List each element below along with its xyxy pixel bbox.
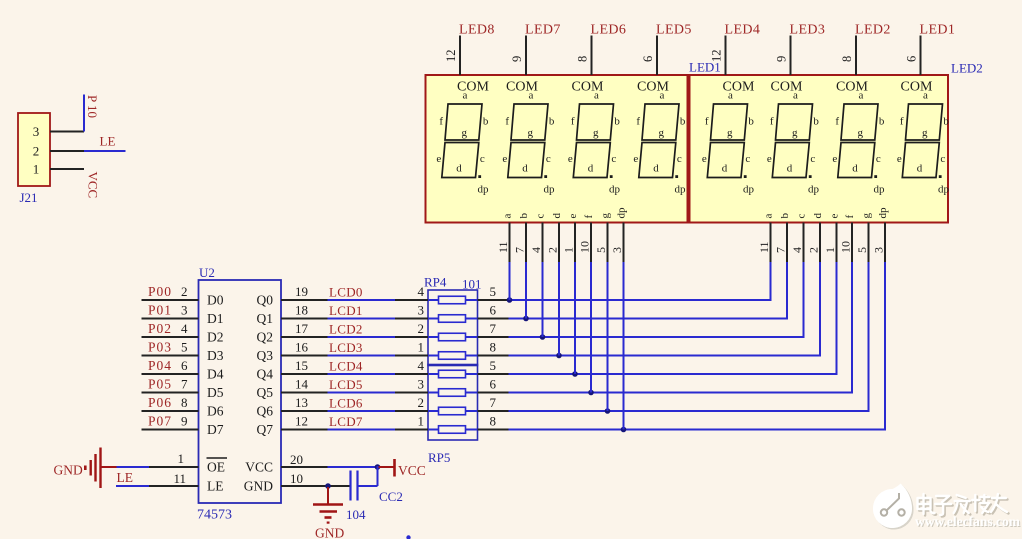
svg-text:11: 11 [173, 471, 186, 486]
watermark text [915, 494, 1022, 530]
segment pin e/1 (left display) [562, 214, 580, 254]
svg-text:P04: P04 [148, 358, 172, 373]
COM pin 8 (display LED2) [840, 36, 856, 76]
svg-text:4: 4 [418, 284, 425, 299]
wire bus row f [478, 392, 509, 394]
svg-text:5: 5 [490, 358, 497, 373]
segment pin c/4 (left display) [529, 214, 547, 254]
wire U2 Q3 to RP input [281, 355, 328, 357]
svg-text:RP4: RP4 [424, 275, 447, 290]
svg-text:12: 12 [444, 50, 458, 63]
junction node row d [556, 353, 562, 359]
segment pin dp/3 (left display) [610, 207, 628, 253]
COM pin 12 (display LED8) [444, 36, 460, 76]
7-seg digit under LED4 [702, 80, 755, 196]
svg-text:74573: 74573 [197, 508, 232, 523]
wire bus row e [478, 373, 509, 375]
svg-text:COM: COM [572, 80, 604, 95]
wire P04 to U2 pin 6 [142, 373, 199, 375]
svg-text:6: 6 [490, 377, 497, 392]
svg-text:LCD3: LCD3 [329, 340, 363, 355]
svg-text:c: c [796, 214, 808, 219]
wire P01 to U2 pin 3 [142, 318, 199, 320]
svg-text:d: d [551, 213, 563, 219]
svg-text:5: 5 [855, 247, 869, 253]
svg-text:12: 12 [710, 50, 724, 63]
7-seg digit under LED5 [633, 80, 686, 196]
svg-text:GND: GND [54, 463, 83, 478]
svg-text:4: 4 [790, 247, 804, 253]
svg-text:8: 8 [840, 56, 854, 62]
wire bus row a [478, 299, 509, 301]
wire segment a left display [509, 223, 511, 301]
svg-text:2: 2 [418, 395, 425, 410]
svg-text:Q6: Q6 [257, 404, 274, 419]
svg-text:GND: GND [244, 479, 273, 494]
segment pin d/2 (right display) [807, 213, 825, 254]
svg-text:2: 2 [33, 144, 40, 159]
svg-text:VCC: VCC [245, 460, 273, 475]
svg-text:D6: D6 [207, 404, 224, 419]
svg-text:16: 16 [295, 340, 309, 355]
wire U2 Q2 to RP input [281, 336, 328, 338]
svg-text:J21: J21 [20, 190, 38, 205]
svg-text:10: 10 [839, 241, 853, 253]
wire U2 Q6 to RP input [281, 410, 328, 412]
svg-text:COM: COM [637, 80, 669, 95]
svg-text:5: 5 [594, 247, 608, 253]
svg-text:12: 12 [295, 414, 308, 429]
svg-text:LED2: LED2 [951, 61, 983, 76]
wire P06 to U2 pin 8 [142, 410, 199, 412]
svg-text:COM: COM [836, 80, 868, 95]
resistor element 3 of RP4 [428, 333, 478, 341]
svg-text:6: 6 [641, 56, 655, 62]
svg-text:D4: D4 [207, 367, 224, 382]
svg-text:b: b [518, 213, 530, 219]
wire bus row b [478, 318, 509, 320]
wire segment c left display [542, 223, 544, 338]
svg-text:18: 18 [295, 303, 308, 318]
segment pin g/5 (right display) [855, 213, 873, 254]
wire segment b right display [786, 223, 788, 320]
svg-text:c: c [535, 214, 547, 219]
segment pin f/10 (right display) [839, 215, 857, 254]
svg-text:VCC: VCC [86, 172, 101, 199]
svg-text:www.elecfans.com: www.elecfans.com [915, 514, 1021, 529]
connector J21 [18, 113, 50, 205]
svg-text:7: 7 [513, 247, 527, 253]
svg-text:VCC: VCC [398, 463, 426, 478]
display module LED1 (left 4-digit 7-segment block) [426, 75, 688, 223]
IC U2 74573 latch [197, 265, 281, 523]
svg-text:P06: P06 [148, 395, 172, 410]
svg-text:1: 1 [562, 247, 576, 253]
svg-text:4: 4 [181, 321, 188, 336]
svg-text:dp: dp [877, 207, 889, 219]
svg-text:1: 1 [418, 414, 425, 429]
svg-text:Q4: Q4 [257, 367, 274, 382]
resistor element 2 of RP4 [428, 315, 478, 323]
svg-text:15: 15 [295, 358, 308, 373]
wire bus row d [478, 355, 509, 357]
svg-text:7: 7 [181, 377, 188, 392]
svg-text:LED7: LED7 [525, 23, 561, 38]
svg-text:U2: U2 [199, 265, 215, 280]
junction node VCC [375, 464, 381, 470]
7-seg digit under LED3 [767, 80, 820, 196]
svg-text:8: 8 [490, 340, 497, 355]
svg-text:1: 1 [823, 247, 837, 253]
svg-text:LED2: LED2 [855, 23, 891, 38]
resistor element 4 of RP4 [428, 352, 478, 360]
svg-text:17: 17 [295, 321, 309, 336]
svg-text:1: 1 [33, 162, 40, 177]
svg-text:19: 19 [295, 284, 308, 299]
svg-text:1: 1 [178, 451, 185, 466]
svg-text:10: 10 [290, 471, 303, 486]
wire bus row c [478, 336, 509, 338]
svg-text:LED4: LED4 [725, 23, 761, 38]
svg-text:4: 4 [418, 358, 425, 373]
svg-text:GND: GND [315, 526, 344, 539]
wire J21 pin 2 [50, 150, 84, 152]
wire bus row g [478, 410, 509, 412]
wire segment f left display [590, 223, 592, 393]
svg-text:9: 9 [181, 414, 188, 429]
svg-text:LCD1: LCD1 [329, 303, 363, 318]
resistor element 3 of RP5 [428, 407, 478, 415]
wire LE (U2 pin 11) [116, 485, 199, 487]
svg-text:LED3: LED3 [790, 23, 826, 38]
svg-text:COM: COM [457, 80, 489, 95]
wire P03 to U2 pin 5 [142, 355, 199, 357]
svg-text:8: 8 [576, 56, 590, 62]
svg-text:Q0: Q0 [257, 293, 274, 308]
svg-text:6: 6 [490, 303, 497, 318]
segment pin b/7 (right display) [774, 213, 792, 254]
svg-text:P05: P05 [148, 377, 172, 392]
wire J21 pin 1 [50, 168, 84, 170]
svg-text:a: a [502, 214, 514, 219]
watermark elecfans logo [873, 484, 914, 530]
svg-text:D1: D1 [207, 311, 224, 326]
svg-text:P00: P00 [148, 284, 172, 299]
svg-text:6: 6 [905, 56, 919, 62]
wire LE [84, 150, 126, 152]
svg-text:LED1: LED1 [920, 23, 956, 38]
svg-text:LCD6: LCD6 [329, 396, 363, 411]
junction node GND [325, 483, 331, 489]
ground symbol (bottom, earth) [313, 487, 344, 539]
svg-text:3: 3 [33, 124, 40, 139]
svg-text:P01: P01 [148, 303, 172, 318]
junction node row b [523, 316, 529, 322]
svg-text:Q2: Q2 [257, 330, 274, 345]
svg-text:9: 9 [510, 56, 524, 62]
svg-text:D2: D2 [207, 330, 224, 345]
segment pin a/11 (left display) [496, 214, 514, 254]
7-seg digit under LED1 [897, 80, 950, 196]
svg-text:Q5: Q5 [257, 385, 274, 400]
svg-text:P02: P02 [148, 321, 172, 336]
wire capacitor to VCC node [358, 466, 378, 486]
svg-text:11: 11 [757, 241, 771, 253]
junction node row f [588, 390, 594, 396]
wire segment g right display [868, 223, 870, 413]
svg-text:D7: D7 [207, 422, 224, 437]
svg-text:d: d [812, 213, 824, 219]
svg-text:2: 2 [418, 321, 425, 336]
COM pin 9 (display LED3) [775, 36, 791, 76]
svg-text:13: 13 [295, 395, 308, 410]
wire VCC (U2 pin 20) [281, 466, 378, 468]
wire U2 Q0 to RP input [281, 299, 328, 301]
resistor network RP4 [424, 275, 482, 366]
stray blue mark [406, 535, 410, 539]
svg-text:CC2: CC2 [379, 489, 403, 504]
svg-text:5: 5 [490, 284, 497, 299]
svg-text:8: 8 [181, 395, 188, 410]
wire bus row dp [478, 429, 509, 431]
segment pin d/2 (left display) [546, 213, 564, 254]
svg-text:COM: COM [771, 80, 803, 95]
svg-text:LE: LE [100, 134, 116, 149]
svg-text:8: 8 [490, 414, 497, 429]
display module LED2 (right 4-digit 7-segment block) [690, 75, 949, 223]
svg-text:D3: D3 [207, 348, 224, 363]
wire segment b left display [525, 223, 527, 319]
wire segment d left display [558, 223, 560, 356]
svg-text:OE: OE [207, 460, 225, 475]
svg-text:2: 2 [807, 247, 821, 253]
wire P07 to U2 pin 9 [142, 429, 199, 431]
wire segment dp left display [623, 223, 625, 430]
svg-text:3: 3 [610, 247, 624, 253]
7-seg digit under LED2 [832, 80, 885, 196]
segment pin g/5 (left display) [594, 213, 612, 254]
svg-text:LED8: LED8 [459, 23, 495, 38]
svg-text:COM: COM [723, 80, 755, 95]
svg-text:7: 7 [490, 395, 497, 410]
wire OE (U2 pin 1) [101, 466, 199, 468]
svg-text:RP5: RP5 [428, 450, 450, 465]
svg-text:D5: D5 [207, 385, 224, 400]
resistor element 2 of RP5 [428, 389, 478, 397]
segment pin f/10 (left display) [578, 215, 596, 254]
segment pin b/7 (left display) [513, 213, 531, 254]
svg-text:f: f [844, 215, 856, 219]
svg-text:COM: COM [901, 80, 933, 95]
junction node row a [507, 297, 513, 303]
junction node row g [605, 408, 611, 414]
svg-text:7: 7 [774, 247, 788, 253]
svg-text:LED6: LED6 [591, 23, 627, 38]
resistor network RP5 [428, 365, 478, 466]
COM pin 6 (display LED1) [905, 36, 921, 76]
svg-text:14: 14 [295, 377, 309, 392]
ground symbol (left, power ground sideways) [54, 448, 101, 489]
svg-text:LED5: LED5 [656, 23, 692, 38]
svg-text:104: 104 [346, 507, 366, 522]
svg-text:g: g [600, 213, 612, 219]
wire segment d right display [819, 223, 821, 357]
svg-text:a: a [763, 214, 775, 219]
capacitor CC2 [346, 471, 403, 523]
svg-text:b: b [779, 213, 791, 219]
svg-text:COM: COM [506, 80, 538, 95]
svg-text:2: 2 [546, 247, 560, 253]
wire U2 Q5 to RP input [281, 392, 328, 394]
svg-text:11: 11 [496, 241, 510, 253]
svg-text:1: 1 [418, 340, 425, 355]
svg-text:4: 4 [529, 247, 543, 253]
wire segment c right display [803, 223, 805, 339]
svg-text:9: 9 [775, 56, 789, 62]
svg-text:2: 2 [181, 284, 188, 299]
svg-text:3: 3 [872, 247, 886, 253]
svg-text:P 10: P 10 [85, 95, 100, 118]
svg-text:P03: P03 [148, 340, 172, 355]
wire J21 pin 3 [50, 131, 84, 133]
7-seg digit under LED8 [436, 80, 489, 196]
svg-text:g: g [861, 213, 873, 219]
segment pin c/4 (right display) [790, 214, 808, 254]
wire P05 to U2 pin 7 [142, 392, 199, 394]
svg-text:101: 101 [462, 277, 482, 292]
resistor element 1 of RP4 [428, 296, 478, 304]
wire segment a right display [770, 223, 772, 302]
svg-text:e: e [567, 214, 579, 219]
wire segment dp right display [884, 223, 886, 431]
wire segment e right display [836, 223, 838, 376]
svg-text:3: 3 [418, 377, 425, 392]
7-seg digit under LED7 [502, 80, 555, 196]
svg-text:e: e [829, 214, 841, 219]
svg-text:LCD7: LCD7 [329, 414, 363, 429]
wire U2 Q7 to RP input [281, 429, 328, 431]
COM pin 12 (display LED4) [710, 36, 726, 76]
junction node row dp [621, 427, 627, 433]
svg-text:dp: dp [616, 207, 628, 219]
wire segment f right display [851, 223, 853, 394]
svg-text:5: 5 [181, 340, 188, 355]
VCC power symbol [378, 459, 426, 478]
svg-text:LCD0: LCD0 [329, 285, 363, 300]
svg-text:D0: D0 [207, 293, 224, 308]
svg-text:LCD5: LCD5 [329, 377, 363, 392]
svg-text:7: 7 [490, 321, 497, 336]
segment pin a/11 (right display) [757, 214, 775, 254]
svg-text:LCD2: LCD2 [329, 322, 363, 337]
7-seg digit under LED6 [568, 80, 621, 196]
svg-text:P07: P07 [148, 414, 172, 429]
svg-text:LCD4: LCD4 [329, 359, 363, 374]
wire P00 to U2 pin 2 [142, 299, 199, 301]
svg-text:LE: LE [207, 479, 224, 494]
wire segment e left display [574, 223, 576, 375]
wire segment g left display [607, 223, 609, 412]
COM pin 9 (display LED7) [510, 36, 526, 76]
svg-text:Q1: Q1 [257, 311, 274, 326]
COM pin 8 (display LED6) [576, 36, 592, 76]
svg-text:Q7: Q7 [257, 422, 274, 437]
junction node row c [540, 334, 546, 340]
wire U2 Q4 to RP input [281, 373, 328, 375]
svg-text:3: 3 [418, 303, 425, 318]
junction node row e [572, 371, 578, 377]
resistor element 4 of RP5 [428, 426, 478, 434]
svg-text:3: 3 [181, 303, 188, 318]
segment pin dp/3 (right display) [872, 207, 890, 253]
resistor element 1 of RP5 [428, 370, 478, 378]
segment pin e/1 (right display) [823, 214, 841, 254]
svg-text:20: 20 [290, 452, 303, 467]
svg-text:10: 10 [578, 241, 592, 253]
COM pin 6 (display LED5) [641, 36, 657, 76]
wire U2 Q1 to RP input [281, 318, 328, 320]
wire GND (U2 pin 10) [281, 485, 350, 487]
svg-text:LE: LE [117, 470, 134, 485]
svg-text:f: f [583, 215, 595, 219]
svg-text:6: 6 [181, 358, 188, 373]
wire P10 [83, 95, 85, 132]
svg-text:Q3: Q3 [257, 348, 274, 363]
wire P02 to U2 pin 4 [142, 336, 199, 338]
